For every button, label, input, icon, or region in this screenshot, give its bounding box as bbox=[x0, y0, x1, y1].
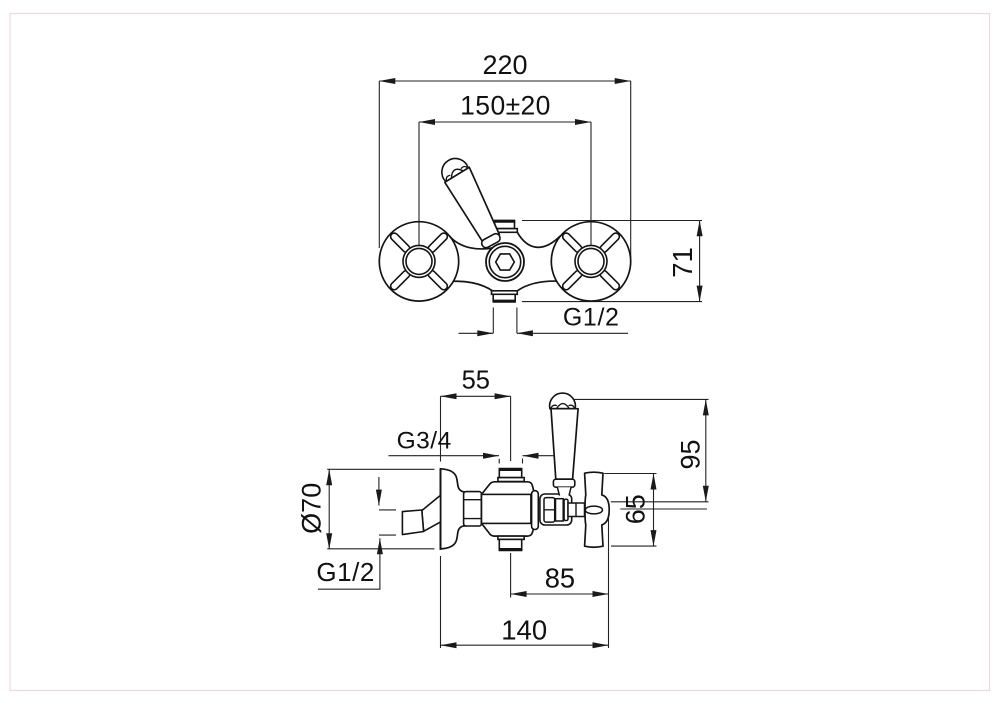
arrowhead 150 right bbox=[575, 119, 591, 125]
arrowhead 220 right bbox=[615, 78, 631, 84]
svg-text:65: 65 bbox=[621, 494, 651, 524]
arrowhead G34 right-point bbox=[483, 453, 499, 459]
top outlet nut bbox=[495, 221, 515, 229]
lever ball side view bbox=[550, 393, 576, 409]
G3/4 stub left bbox=[498, 459, 500, 464]
G3/4 stub right bbox=[522, 459, 524, 464]
arrowhead 95 up bbox=[703, 399, 709, 415]
body neck bottom-right bbox=[517, 281, 556, 291]
center boss inner circle bbox=[489, 246, 520, 277]
center boss outer circle bbox=[486, 243, 524, 281]
dim line 71 bbox=[699, 220, 701, 301]
leader G3/4 left arrow bbox=[389, 455, 500, 457]
arrowhead 65 down bbox=[651, 530, 657, 546]
lever neck left edge bbox=[557, 487, 559, 495]
top nut bold edge bbox=[499, 468, 523, 471]
G1/2 tick top bbox=[379, 509, 396, 511]
valve body octagon bbox=[482, 482, 534, 536]
ext line 95 top bbox=[572, 398, 709, 400]
centerline right bbox=[620, 508, 707, 510]
stack B bbox=[556, 499, 564, 521]
center boss hex bbox=[496, 254, 515, 270]
lever body top view bbox=[445, 167, 500, 243]
ext line 140 left bbox=[440, 556, 442, 648]
ball arc right ear top view bbox=[461, 165, 468, 171]
dim line 85 bbox=[511, 593, 609, 595]
outlet nut bbox=[402, 510, 423, 535]
arrowhead O70 down bbox=[326, 533, 332, 549]
arrowhead G12side down-point bbox=[376, 490, 382, 506]
lever collar side view bbox=[553, 479, 574, 487]
stack C bbox=[564, 499, 568, 520]
bottom nut bold edge bbox=[499, 548, 523, 551]
ext line G12top left bbox=[492, 308, 494, 334]
ext line 65 top bbox=[604, 473, 656, 475]
dim line 55 bbox=[441, 395, 511, 397]
svg-text:150±20: 150±20 bbox=[460, 90, 551, 120]
cross handle side view bbox=[585, 472, 610, 547]
svg-text:G1/2: G1/2 bbox=[316, 557, 374, 587]
arrowhead 150 left bbox=[419, 119, 435, 125]
bottom outlet flange bbox=[492, 291, 518, 295]
body neck top-left bbox=[449, 236, 500, 249]
dim line 95 bbox=[705, 399, 707, 501]
top outlet nut bold edge bbox=[494, 220, 515, 223]
arrowhead 140 right bbox=[593, 642, 609, 648]
ext line G12top right bbox=[516, 308, 518, 334]
dim line 65 bbox=[653, 474, 655, 547]
ext line 85-140 right bbox=[608, 518, 610, 648]
ext line 65 bottom bbox=[611, 545, 657, 547]
bonnet plate bbox=[532, 491, 539, 530]
arrowhead G12top right-point bbox=[477, 330, 493, 336]
wall flange face line bbox=[440, 469, 442, 550]
outlet cone bbox=[422, 495, 441, 531]
bottom nut side view bbox=[499, 539, 521, 550]
arrowhead O70 up bbox=[326, 469, 332, 485]
svg-text:95: 95 bbox=[676, 439, 706, 469]
arrowhead G34 left-point bbox=[523, 453, 539, 459]
top outlet flange bbox=[493, 229, 518, 233]
lever collar top view bbox=[480, 232, 501, 249]
svg-text:140: 140 bbox=[501, 615, 547, 646]
arrowhead G12top left-point bbox=[517, 330, 533, 336]
lever neck fill bbox=[557, 487, 571, 495]
stack hex A bbox=[544, 498, 555, 522]
ext line 95 bottom bbox=[611, 501, 709, 503]
top flange side view bbox=[498, 478, 524, 482]
G1/2 arrow top bbox=[378, 477, 380, 506]
ext line 150 left bbox=[418, 122, 420, 254]
bottom flange side view bbox=[498, 536, 524, 539]
svg-text:G3/4: G3/4 bbox=[397, 427, 452, 454]
G1/2 tick bottom bbox=[379, 534, 396, 536]
ext line 55 right bbox=[510, 396, 512, 461]
svg-text:G1/2: G1/2 bbox=[563, 304, 620, 332]
ext line O70 bottom bbox=[327, 548, 434, 550]
lever neck right edge bbox=[569, 487, 571, 495]
dim line 140 bbox=[441, 644, 609, 646]
lever body side view bbox=[551, 409, 578, 480]
arrowhead 55 left bbox=[441, 393, 457, 399]
ext line 220 left bbox=[378, 81, 380, 248]
arrowhead G12side up-point bbox=[377, 538, 383, 554]
arrowhead 140 left bbox=[441, 642, 457, 648]
ball arc left ear bbox=[551, 405, 557, 408]
cartridge barrel bbox=[482, 494, 531, 523]
ext line 71 top bbox=[522, 220, 702, 222]
right handle bbox=[551, 222, 630, 301]
svg-text:220: 220 bbox=[482, 50, 527, 80]
arrowhead 65 up bbox=[651, 474, 657, 490]
connector hex nut bbox=[464, 492, 482, 526]
ext line O70 top bbox=[327, 468, 434, 470]
body neck top-right bbox=[517, 232, 560, 247]
G1/2 arrow bottom bbox=[379, 538, 381, 589]
dim line O70 bbox=[328, 469, 330, 549]
top nut side view bbox=[499, 469, 521, 478]
ball arc middle top view bbox=[449, 166, 464, 178]
dim line 150 bbox=[419, 121, 591, 123]
arrowhead 71 down bbox=[697, 286, 703, 302]
dim line 220 bbox=[379, 80, 630, 82]
yoke housing bbox=[540, 494, 572, 525]
ext line 55 left + 140 left bbox=[440, 396, 442, 461]
ext line 71 bottom bbox=[522, 301, 702, 303]
left handle bbox=[379, 222, 458, 301]
arrowhead 55 right bbox=[495, 393, 511, 399]
svg-text:85: 85 bbox=[545, 563, 575, 594]
wall flange dome bbox=[441, 469, 466, 549]
arrow G12top left bbox=[459, 332, 494, 334]
bottom outlet nut bbox=[493, 294, 515, 301]
hub lens ellipse bbox=[585, 506, 602, 514]
svg-text:Ø70: Ø70 bbox=[297, 483, 327, 534]
ext line 220 right bbox=[630, 81, 632, 258]
lever ball top view bbox=[437, 153, 469, 181]
arrowhead 220 left bbox=[379, 78, 395, 84]
stem shaft divider bbox=[575, 503, 577, 517]
G3/4 right arrow bbox=[523, 455, 558, 457]
arrowhead 95 down bbox=[703, 486, 709, 502]
arrowhead 71 up bbox=[697, 220, 703, 236]
svg-text:55: 55 bbox=[462, 367, 490, 395]
G1/2 leader underline bbox=[318, 588, 380, 590]
ext line 85 left centerline bbox=[510, 553, 512, 598]
arrowhead 85 left bbox=[511, 591, 527, 597]
svg-text:71: 71 bbox=[667, 247, 698, 278]
ball arc right ear bbox=[569, 405, 575, 408]
bottom outlet nut bold edge bbox=[493, 300, 516, 303]
ext line 150 right bbox=[590, 122, 592, 255]
body neck bottom-left bbox=[453, 281, 492, 291]
arrow G12top right bbox=[517, 332, 628, 334]
stack A midline bbox=[544, 509, 555, 511]
ball arc middle bbox=[557, 404, 570, 409]
stem shaft bbox=[568, 503, 585, 517]
ball arc left ear top view bbox=[445, 175, 452, 181]
arrowhead 85 right bbox=[593, 591, 609, 597]
